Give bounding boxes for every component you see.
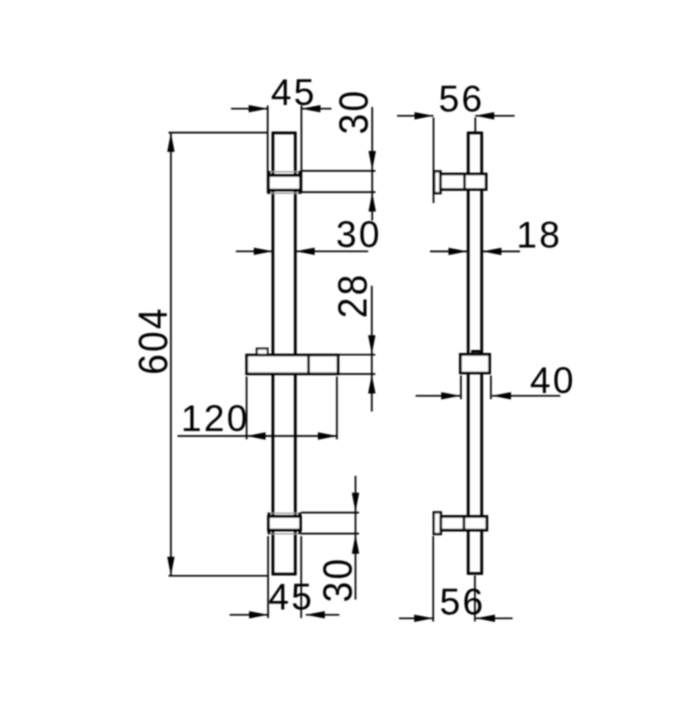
svg-text:45: 45: [271, 72, 317, 113]
svg-text:40: 40: [530, 360, 576, 401]
svg-text:56: 56: [440, 581, 486, 622]
svg-text:18: 18: [516, 215, 562, 256]
svg-text:30: 30: [316, 557, 361, 603]
svg-text:28: 28: [331, 273, 376, 319]
svg-text:30: 30: [332, 89, 377, 135]
svg-text:604: 604: [131, 306, 176, 375]
svg-text:45: 45: [268, 576, 314, 617]
svg-text:56: 56: [439, 79, 485, 120]
svg-text:120: 120: [181, 398, 250, 439]
svg-text:30: 30: [336, 214, 382, 255]
